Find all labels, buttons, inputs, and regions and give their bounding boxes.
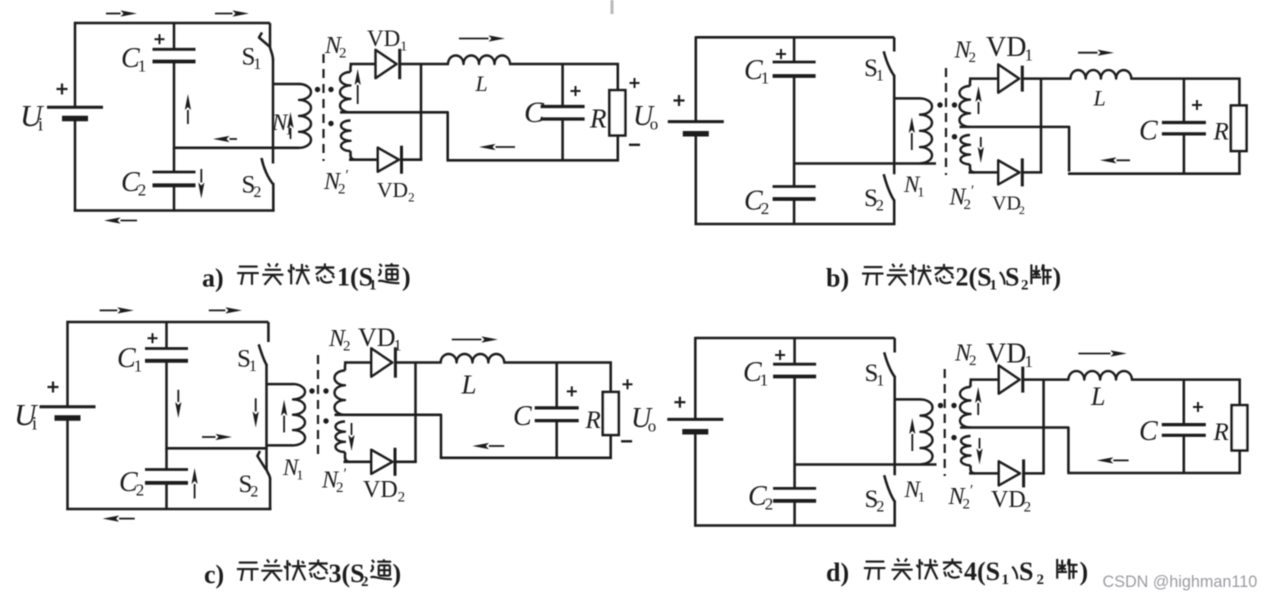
inductor L (b) xyxy=(1071,70,1132,79)
svg-text:L: L xyxy=(461,370,477,400)
wire: rectifier cathode riser joining VD1 and VD2 (a) xyxy=(420,63,423,161)
transformer secondary N2 (a): top lead from top rail xyxy=(351,64,353,72)
wire: center tap of secondary to output return corner (a) xyxy=(340,112,448,160)
wire: circuit a left branch upper (to battery +) xyxy=(74,22,77,107)
svg-text:2: 2 xyxy=(1037,572,1045,588)
resistor R (c) xyxy=(603,392,619,435)
arrow: current in N1 (c) xyxy=(281,400,287,433)
arrow: input current top-right (c) xyxy=(209,307,242,313)
inductor L (d) xyxy=(1068,371,1132,380)
label + of output C (b) xyxy=(1192,100,1202,110)
wire: N2 to diode VD1 (a) xyxy=(350,63,377,66)
svg-text:R: R xyxy=(1213,119,1229,146)
wire: circuit a left branch lower (battery - to bottom) xyxy=(74,119,77,212)
wire: VD2 cathode to junction riser (b) xyxy=(1021,171,1042,174)
wire: circuit d left branch lower (battery - to bottom) xyxy=(694,432,697,527)
svg-text:1: 1 xyxy=(1002,572,1010,588)
switch S2 open (a): blade xyxy=(262,158,274,184)
wire: R bottom to output bottom rail (a) xyxy=(617,135,620,161)
transformer secondary N2 (c): top lead from top rail xyxy=(345,363,347,371)
wire: filter C branch upper (c) xyxy=(555,363,558,408)
arrow: return current on output bottom rail (c) xyxy=(472,443,504,449)
diode VD2 (c) xyxy=(371,448,395,476)
svg-text:CSDN @highman110: CSDN @highman110 xyxy=(1103,573,1258,591)
transformer primary N1 (d): top lead xyxy=(895,398,921,401)
capacitor C1 (c) xyxy=(145,349,188,361)
transformer primary N1 (a): winding xyxy=(299,84,311,148)
wire: center tap of secondary to output return corner (d) xyxy=(960,428,1068,473)
label + of battery Ui (c) xyxy=(48,382,59,393)
wire: circuit c mid branch C1 to junction node xyxy=(165,361,168,449)
switch S1 open (c): upper terminal xyxy=(267,322,270,342)
capacitor C1 (b) xyxy=(773,62,816,76)
svg-text:N2′: N2′ xyxy=(321,466,347,496)
wire: N2' to diode VD2 (d) xyxy=(969,472,1000,475)
label + of battery (d) xyxy=(674,397,685,408)
wire: VD2 cathode to junction riser (a) xyxy=(400,158,422,161)
wire: circuit a mid junction to S-branch and N1 bottom xyxy=(174,147,299,150)
wire: filter C branch upper (d) xyxy=(1183,380,1186,425)
transformer secondary N2 (a): winding xyxy=(340,72,350,112)
wire: circuit a mid branch from top rail to C1 xyxy=(173,23,176,49)
wire: circuit a S-branch vertical (S1 out through N1 taps to S2 in) xyxy=(272,59,275,164)
wire: L to output node and R corner (d) xyxy=(1131,378,1241,381)
svg-text:C: C xyxy=(1139,416,1158,447)
arrow: return current on output bottom rail (b) xyxy=(1100,157,1130,163)
wire: circuit d mid branch C2 to bottom rail xyxy=(793,501,796,527)
switch S1 open (b): upper terminal xyxy=(893,37,896,51)
capacitor C output filter (b) xyxy=(1162,123,1206,134)
arrow: current in N1 (d) xyxy=(909,418,915,451)
wire: right branch from top rail to R (d) xyxy=(1238,379,1241,406)
svg-text:S: S xyxy=(1005,263,1019,292)
transformer secondary N2 (d): top lead from top rail xyxy=(971,380,973,387)
switch S1 open (c): blade xyxy=(259,344,267,365)
switch S1 open (b): blade xyxy=(884,51,895,76)
arrow: current left on junction wire (a) xyxy=(213,136,237,142)
transformer core (d): dashed line xyxy=(944,369,946,476)
battery input (b) xyxy=(668,122,724,134)
wire: L to output node and R corner (c) xyxy=(503,361,612,364)
svg-text:a): a) xyxy=(202,264,224,293)
wire: output bottom rail (b) xyxy=(1068,172,1241,175)
scan smudge top center xyxy=(611,0,614,14)
diode VD2 (b) xyxy=(998,158,1022,186)
wire: circuit b mid branch C1 to junction node xyxy=(793,76,796,187)
svg-text:2: 2 xyxy=(361,574,369,590)
wire: circuit a top rail of input bridge xyxy=(75,22,270,25)
svg-text:1: 1 xyxy=(990,278,998,294)
transformer dot primary (a) xyxy=(315,87,320,92)
wire: circuit d mid junction to S-branch and under N1 xyxy=(795,463,937,466)
arrow: output current above L (d) xyxy=(1078,350,1127,356)
arrow: current down beside C2 (a) xyxy=(198,169,204,199)
wire: circuit b bottom rail of input bridge xyxy=(695,223,896,226)
transformer secondary N2' (b): bottom lead xyxy=(970,164,975,172)
transformer primary N1 (a): top lead xyxy=(273,83,300,86)
wire: right branch from top rail to R (c) xyxy=(609,362,612,393)
diode VD1 (a) xyxy=(376,49,400,79)
arrow: return current on output bottom rail (d) xyxy=(1097,457,1129,463)
svg-text:L: L xyxy=(1090,382,1105,411)
transformer dot secondary N2' (c) xyxy=(323,418,328,423)
transformer core (a): dashed line xyxy=(322,54,324,161)
arrow: return current on output bottom rail (a) xyxy=(479,144,515,150)
wire: circuit c S-branch vertical (through N1 taps to S2) xyxy=(265,365,268,471)
diode VD1 (b) xyxy=(998,64,1022,92)
label + of output C (c) xyxy=(567,386,577,396)
wire: circuit a mid branch C1 to junction node xyxy=(173,62,176,150)
wire: VD2 cathode to junction riser (d) xyxy=(1022,472,1045,475)
svg-text:4(S: 4(S xyxy=(964,557,1000,586)
transformer dot primary (d) xyxy=(938,403,943,408)
capacitor C2 (a) xyxy=(153,172,196,185)
label + of battery Ui (a) xyxy=(57,84,68,95)
arrow: current right on junction wire (c) xyxy=(202,434,232,440)
wire: circuit a bottom rail of input bridge xyxy=(74,209,275,212)
wire: circuit d mid branch C1 to junction node xyxy=(793,377,796,489)
wire: L to output node and R corner (b) xyxy=(1130,77,1240,80)
wire: circuit b S2 lower terminal to bottom rail xyxy=(893,200,896,226)
wire: VD2 cathode to junction riser (c) xyxy=(394,461,417,464)
svg-text:): ) xyxy=(402,263,411,292)
wire: center tap of secondary to output return corner (c) xyxy=(335,415,442,458)
transformer dot secondary N2 (d) xyxy=(951,403,956,408)
transformer dot secondary N2' (d) xyxy=(951,435,956,440)
arrow: current in N2 (d) xyxy=(975,387,981,415)
switch S2 closed (c): blade xyxy=(257,451,266,470)
wire: circuit b mid junction to S-branch and under N1 xyxy=(794,162,936,165)
transformer core (c): dashed line xyxy=(317,355,319,460)
svg-text:VD2: VD2 xyxy=(991,487,1031,516)
label + of battery (b) xyxy=(674,95,685,106)
transformer secondary N2' (d): bottom lead xyxy=(971,465,976,473)
svg-text:VD1: VD1 xyxy=(986,339,1033,372)
label - of output Uo (a) xyxy=(629,144,640,146)
arrow: current in N1 (a) xyxy=(287,112,293,139)
transformer primary N1 (c): top lead xyxy=(267,383,294,386)
wire: filter C branch upper (b) xyxy=(1183,79,1186,123)
wire: circuit d S-branch vertical (through N1 taps to S2) xyxy=(893,376,896,475)
label + of C1 (b) xyxy=(776,49,786,59)
arrow: current down mid branch (c) xyxy=(175,390,181,418)
wire: output bottom rail (d) xyxy=(1067,472,1241,475)
switch S2 open (d): blade xyxy=(884,475,895,501)
arrow: input current top-left (c) xyxy=(100,307,134,313)
diode VD2 (a) xyxy=(378,146,402,174)
wire: circuit d S2 lower terminal to bottom rail xyxy=(893,501,896,527)
transformer secondary N2 (b): winding xyxy=(960,86,971,127)
capacitor C output filter (d) xyxy=(1162,425,1206,436)
arrow: return current bottom (a) xyxy=(104,217,137,223)
wire: filter C branch lower (c) xyxy=(555,421,558,459)
battery input (d) xyxy=(667,419,723,431)
switch S1 closed (a): bend to lower terminal xyxy=(270,48,273,61)
transformer primary N1 (b): winding xyxy=(920,98,932,163)
battery Ui (a) xyxy=(47,107,103,118)
capacitor C2 (d) xyxy=(773,488,816,501)
transformer core (b): dashed line xyxy=(945,68,947,175)
svg-text:c): c) xyxy=(204,560,224,589)
transformer primary N1 (d): winding xyxy=(921,399,933,464)
transformer secondary N2' (a): bottom lead xyxy=(351,151,356,160)
svg-text:VD1: VD1 xyxy=(358,323,402,355)
transformer dot secondary N2 (c) xyxy=(323,388,328,393)
wire: circuit c mid junction to S-branch (c) xyxy=(167,447,268,450)
transformer secondary N2' (c): winding xyxy=(336,422,346,452)
svg-text:d): d) xyxy=(826,558,849,587)
arrow: input current top-left (a) xyxy=(106,10,137,16)
wire: output bottom rail (c) xyxy=(440,457,612,460)
wire: circuit d left branch upper (to battery +) xyxy=(694,337,697,419)
svg-text:3(S: 3(S xyxy=(329,559,365,588)
wire: circuit a S2 lower terminal to bottom rail xyxy=(272,183,275,212)
arrow: current in N2' (b) xyxy=(978,137,984,163)
svg-text:2(S: 2(S xyxy=(956,263,992,292)
resistor R (b) xyxy=(1231,106,1247,152)
switch S1 closed (a): blade xyxy=(259,33,270,47)
arrow: current up mid branch (a) xyxy=(185,94,191,124)
transformer dot secondary N2 (b) xyxy=(952,102,957,107)
resistor R (a) xyxy=(609,90,625,135)
capacitor C2 (c) xyxy=(145,470,188,483)
arrow: current in N2' (c) xyxy=(348,423,354,451)
wire: circuit c top rail of input bridge xyxy=(68,321,269,324)
wire: L to output node and R corner (a) xyxy=(509,63,619,66)
transformer primary N1 (c): bottom lead xyxy=(267,444,294,447)
transformer dot secondary N2 (a) xyxy=(328,87,333,92)
wire: N2 to diode VD1 (c) xyxy=(344,361,372,364)
transformer dot secondary N2' (b) xyxy=(952,134,957,139)
switch S1 open (d): blade xyxy=(884,352,895,377)
svg-text:N2′: N2′ xyxy=(323,168,349,198)
svg-text:VD1: VD1 xyxy=(986,32,1033,65)
svg-text:2: 2 xyxy=(1021,278,1029,294)
svg-text:L: L xyxy=(1093,86,1106,111)
arrow: current in N2' (d) xyxy=(976,438,982,465)
wire: circuit c mid branch junction to C2 xyxy=(165,448,168,469)
svg-text:C: C xyxy=(1139,116,1158,147)
switch S2 closed (c): bend to lower terminal xyxy=(267,470,271,479)
arrow: output current above L (b) xyxy=(1078,50,1114,56)
svg-text:Ui: Ui xyxy=(20,98,45,136)
transformer secondary N2' (b): winding xyxy=(961,135,971,164)
inductor L (c) xyxy=(441,354,505,363)
svg-text:R: R xyxy=(585,407,601,434)
label + of output Uo (a) xyxy=(630,78,640,88)
switch S1 open (d): upper terminal xyxy=(893,338,896,353)
wire: circuit c left branch upper (to battery +) xyxy=(66,321,69,407)
capacitor C2 (b) xyxy=(773,187,816,200)
wire: N2 to diode VD1 (d) xyxy=(970,378,1000,381)
capacitor C1 (d) xyxy=(773,364,816,376)
wire: circuit a mid branch junction to C2 xyxy=(173,148,176,172)
svg-text:N2′: N2′ xyxy=(948,483,974,513)
diode VD2 (d) xyxy=(999,459,1024,487)
wire: filter C branch lower (b) xyxy=(1183,134,1186,175)
resistor R (d) xyxy=(1232,405,1248,450)
wire: circuit d mid branch from top rail to C1 xyxy=(793,338,796,364)
svg-text:): ) xyxy=(1053,263,1062,292)
switch S1 closed (a): upper terminal xyxy=(269,23,272,48)
arrow: return current bottom (c) xyxy=(103,516,135,522)
wire: N2 to diode VD1 (b) xyxy=(969,77,999,80)
svg-text:C: C xyxy=(513,401,532,432)
transformer primary N1 (b): top lead xyxy=(894,97,920,100)
wire: right branch from top rail to R (a) xyxy=(617,63,620,91)
label + of C1 (d) xyxy=(775,350,785,360)
svg-text:1: 1 xyxy=(369,278,377,294)
wire: VD1 cathode to inductor L (b) xyxy=(1021,77,1072,80)
svg-text:S: S xyxy=(1019,557,1033,586)
wire: circuit b S-branch vertical (through N1 taps to S2) xyxy=(893,75,896,174)
arrow: current in N2 (b) xyxy=(975,86,981,114)
label + of output Uo (c) xyxy=(623,379,633,389)
wire: R bottom to output bottom rail (c) xyxy=(609,435,612,459)
transformer dot primary (c) xyxy=(309,388,314,393)
wire: circuit c bottom rail of input bridge xyxy=(66,508,271,511)
svg-text:N2′: N2′ xyxy=(949,183,975,213)
wire: N2' to diode VD2 (a) xyxy=(349,158,379,161)
transformer dot secondary N2' (a) xyxy=(328,121,333,126)
wire: rectifier cathode riser joining VD1 and VD2 (c) xyxy=(414,362,417,463)
arrow: current in N1 (b) xyxy=(909,117,915,150)
label + of output C (a) xyxy=(571,86,581,96)
transformer secondary N2' (c): bottom lead xyxy=(345,452,350,462)
inductor L (a) xyxy=(448,56,510,65)
arrow: output current above L (c) xyxy=(452,336,498,342)
svg-text:1(S: 1(S xyxy=(337,263,373,292)
capacitor C output filter (c) xyxy=(535,408,579,421)
transformer secondary N2 (d): winding xyxy=(960,387,971,428)
wire: circuit d top rail of input bridge xyxy=(695,337,894,340)
wire: circuit b left branch lower (battery - to bottom) xyxy=(695,134,698,225)
wire: circuit a mid branch C2 to bottom rail xyxy=(173,185,176,211)
svg-text:): ) xyxy=(393,559,402,588)
wire: VD1 cathode to inductor L (c) xyxy=(394,361,442,364)
battery Ui (c) xyxy=(40,407,96,418)
transformer secondary N2 (b): top lead from top rail xyxy=(970,79,972,86)
label + of C1 (a) xyxy=(155,34,165,44)
label - of output Uo (c) xyxy=(621,440,632,442)
wire: circuit b left branch upper (to battery +) xyxy=(695,36,698,121)
wire: R bottom to output bottom rail (d) xyxy=(1238,450,1241,474)
wire: circuit d bottom rail of input bridge xyxy=(694,524,896,527)
transformer secondary N2 (c): winding xyxy=(335,371,346,415)
arrow: current in N2 (a) xyxy=(355,69,361,104)
wire: circuit c left branch lower (battery - to bottom) xyxy=(66,418,69,510)
transformer secondary N2' (a): winding xyxy=(341,121,351,152)
wire: VD1 cathode to inductor L (d) xyxy=(1022,378,1070,381)
svg-text:R: R xyxy=(1213,419,1229,446)
wire: R bottom to output bottom rail (b) xyxy=(1238,151,1241,175)
wire: rectifier cathode riser joining VD1 and VD2 (b) xyxy=(1040,78,1043,174)
svg-text:): ) xyxy=(1080,557,1089,586)
wire: filter C branch lower (d) xyxy=(1183,435,1186,474)
arrow: current down into N1 loop (c) xyxy=(253,398,259,427)
wire: right branch from top rail to R (b) xyxy=(1238,78,1241,107)
arrow: output current above L (a) xyxy=(459,35,505,41)
wire: circuit b mid branch from top rail to C1 xyxy=(793,37,796,62)
diode VD1 (c) xyxy=(371,347,395,377)
diode VD1 (d) xyxy=(999,365,1023,393)
wire: VD1 cathode to inductor L (a) xyxy=(399,63,450,66)
wire: circuit c mid branch from top rail to C1 xyxy=(165,322,168,349)
wire: output bottom rail (a) xyxy=(447,159,620,162)
wire: filter C branch upper (a) xyxy=(561,64,564,107)
capacitor C1 (a) xyxy=(153,49,196,61)
svg-text:C: C xyxy=(524,96,545,129)
wire: circuit b top rail of input bridge xyxy=(696,36,894,39)
wire: circuit b mid branch C2 to bottom rail xyxy=(793,199,796,225)
wire: circuit c mid branch C2 to bottom rail xyxy=(165,483,168,510)
wire: rectifier cathode riser joining VD1 and VD2 (d) xyxy=(1042,379,1045,475)
transformer dot primary (b) xyxy=(937,102,942,107)
arrow: input current top-right (a) xyxy=(215,10,249,16)
svg-text:L: L xyxy=(475,71,488,96)
transformer secondary N2' (d): winding xyxy=(961,436,971,465)
arrow: current up beside C2 (c) xyxy=(192,468,198,499)
svg-text:Ui: Ui xyxy=(14,397,39,435)
switch S2 open (b): blade xyxy=(884,174,895,200)
wire: center tap of secondary to output return corner (b) xyxy=(960,127,1070,172)
label + of output C (d) xyxy=(1193,402,1203,412)
wire: N2' to diode VD2 (c) xyxy=(344,461,373,464)
capacitor C output filter (a) xyxy=(541,107,585,120)
wire: N2' to diode VD2 (b) xyxy=(969,171,1000,174)
wire: circuit c S2 lower terminal to bottom rail xyxy=(269,478,272,510)
transformer primary N1 (c): winding xyxy=(293,384,305,445)
svg-text:R: R xyxy=(589,104,607,134)
label + of C1 (c) xyxy=(148,333,158,343)
svg-text:b): b) xyxy=(826,264,849,293)
svg-text:VD2: VD2 xyxy=(992,193,1025,218)
wire: filter C branch lower (a) xyxy=(561,119,564,161)
